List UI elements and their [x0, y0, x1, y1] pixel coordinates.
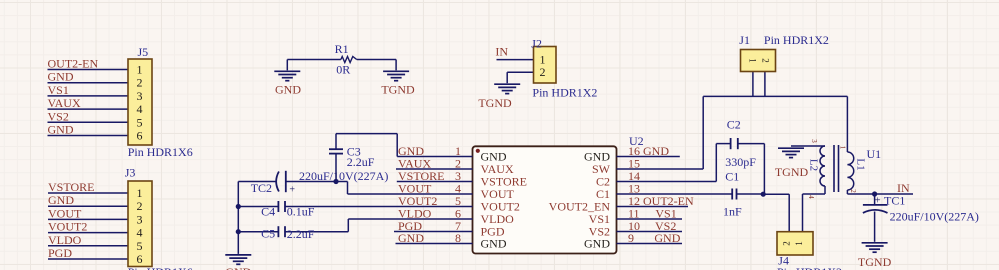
svg-text:330pF: 330pF: [725, 155, 756, 169]
svg-text:L1: L1: [855, 158, 867, 170]
svg-text:220uF/10V(227A): 220uF/10V(227A): [890, 209, 979, 223]
svg-text:GND: GND: [481, 237, 507, 251]
svg-text:2: 2: [849, 189, 857, 193]
svg-text:VSTORE: VSTORE: [48, 180, 94, 194]
svg-text:VAUX: VAUX: [48, 96, 81, 110]
svg-text:VLDO: VLDO: [48, 233, 82, 247]
svg-text:6: 6: [137, 252, 143, 266]
svg-text:0.1uF: 0.1uF: [287, 205, 315, 219]
svg-text:TGND: TGND: [858, 255, 892, 269]
svg-text:+: +: [874, 195, 880, 207]
svg-text:Pin HDR1X6: Pin HDR1X6: [128, 265, 193, 270]
svg-text:VS2: VS2: [48, 109, 69, 123]
svg-text:2.2uF: 2.2uF: [287, 227, 315, 241]
svg-text:TGND: TGND: [381, 83, 415, 97]
svg-text:GND: GND: [48, 193, 74, 207]
svg-text:J3: J3: [125, 166, 136, 180]
svg-text:TGND: TGND: [775, 165, 809, 179]
svg-text:+: +: [289, 185, 295, 196]
svg-text:2: 2: [761, 58, 771, 63]
svg-text:1: 1: [137, 63, 143, 77]
svg-text:Pin HDR1X6: Pin HDR1X6: [128, 145, 193, 159]
svg-text:J2: J2: [531, 37, 542, 51]
svg-text:TC2: TC2: [251, 181, 272, 195]
svg-text:1: 1: [794, 241, 804, 246]
svg-text:3: 3: [810, 139, 818, 143]
svg-text:R1: R1: [335, 42, 349, 56]
svg-text:3: 3: [137, 89, 143, 103]
svg-text:PGD: PGD: [48, 246, 72, 260]
svg-text:4: 4: [137, 102, 143, 116]
svg-text:0R: 0R: [336, 63, 350, 77]
svg-text:2: 2: [540, 65, 546, 79]
svg-text:J5: J5: [138, 45, 149, 59]
svg-text:GND: GND: [643, 144, 669, 158]
svg-text:1: 1: [839, 146, 847, 150]
svg-text:GND: GND: [225, 265, 251, 270]
svg-text:2: 2: [137, 76, 143, 90]
svg-text:2: 2: [137, 199, 143, 213]
svg-text:4: 4: [807, 195, 815, 199]
svg-text:VS1: VS1: [48, 83, 69, 97]
svg-text:C5: C5: [261, 227, 275, 241]
svg-text:1: 1: [137, 186, 143, 200]
svg-text:GND: GND: [584, 237, 610, 251]
svg-text:5: 5: [137, 239, 143, 253]
svg-text:VOUT2: VOUT2: [48, 220, 87, 234]
svg-text:OUT2-EN: OUT2-EN: [48, 57, 99, 71]
svg-text:1nF: 1nF: [723, 205, 742, 219]
svg-text:L2: L2: [808, 159, 820, 171]
svg-text:2: 2: [782, 241, 792, 246]
svg-text:Pin HDR1X2: Pin HDR1X2: [532, 86, 597, 100]
svg-text:TGND: TGND: [478, 96, 512, 110]
svg-text:GND: GND: [48, 70, 74, 84]
svg-text:J1: J1: [739, 33, 750, 47]
svg-text:GND: GND: [48, 123, 74, 137]
svg-text:GND: GND: [398, 231, 424, 245]
svg-text:VOUT: VOUT: [48, 206, 82, 220]
svg-text:1: 1: [748, 58, 758, 63]
svg-text:C4: C4: [261, 205, 275, 219]
svg-text:IN: IN: [495, 45, 508, 59]
svg-text:220uF/10V(227A): 220uF/10V(227A): [299, 169, 388, 183]
svg-text:GND: GND: [654, 231, 680, 245]
svg-text:C2: C2: [727, 118, 741, 132]
svg-text:4: 4: [137, 226, 143, 240]
svg-text:2.2uF: 2.2uF: [347, 155, 375, 169]
svg-text:TC1: TC1: [884, 194, 905, 208]
svg-text:GND: GND: [275, 83, 301, 97]
svg-text:U1: U1: [867, 147, 882, 161]
svg-text:6: 6: [137, 129, 143, 143]
svg-text:Pin HDR1X2: Pin HDR1X2: [764, 33, 829, 47]
svg-text:C1: C1: [725, 170, 739, 184]
svg-text:Pin HDR1X2: Pin HDR1X2: [777, 265, 842, 270]
svg-text:3: 3: [137, 212, 143, 226]
svg-text:5: 5: [137, 115, 143, 129]
